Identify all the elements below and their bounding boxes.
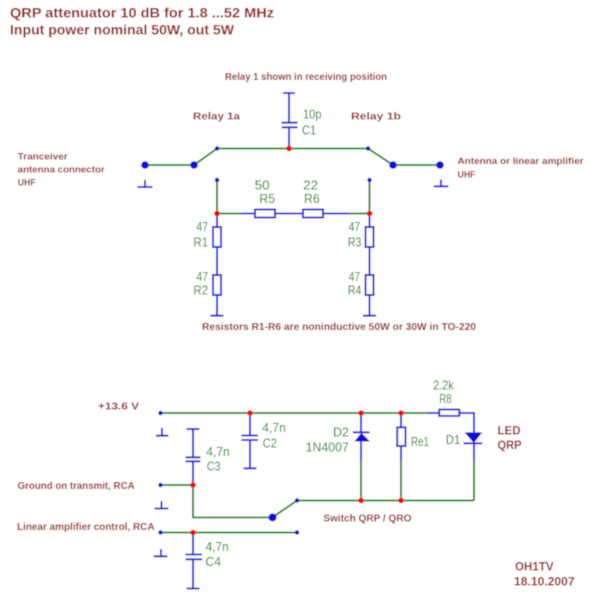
svg-text:+13.6 V: +13.6 V bbox=[98, 401, 139, 413]
svg-text:47: 47 bbox=[349, 220, 361, 234]
svg-text:R2: R2 bbox=[194, 283, 209, 297]
svg-text:C1: C1 bbox=[302, 124, 316, 138]
svg-text:UHF: UHF bbox=[18, 178, 36, 188]
svg-text:Linear amplifier control, RCA: Linear amplifier control, RCA bbox=[17, 522, 155, 533]
svg-text:R1: R1 bbox=[194, 235, 209, 249]
svg-text:1N4007: 1N4007 bbox=[306, 441, 349, 455]
svg-text:10p: 10p bbox=[303, 107, 322, 121]
svg-text:4,7n: 4,7n bbox=[206, 540, 229, 554]
svg-text:D2: D2 bbox=[333, 426, 349, 440]
svg-text:OH1TV: OH1TV bbox=[515, 560, 554, 574]
svg-text:UHF: UHF bbox=[458, 170, 476, 180]
svg-text:QRP: QRP bbox=[498, 438, 522, 452]
svg-text:4,7n: 4,7n bbox=[262, 421, 286, 435]
svg-text:C3: C3 bbox=[207, 460, 221, 474]
svg-text:R8: R8 bbox=[439, 392, 452, 406]
svg-text:47: 47 bbox=[196, 220, 208, 234]
svg-text:Relay 1a: Relay 1a bbox=[193, 111, 240, 123]
svg-text:antenna connector: antenna connector bbox=[18, 165, 106, 175]
svg-text:18.10.2007: 18.10.2007 bbox=[514, 575, 575, 589]
svg-text:Relay 1b: Relay 1b bbox=[351, 111, 401, 123]
svg-text:R5: R5 bbox=[259, 192, 275, 206]
svg-text:4,7n: 4,7n bbox=[206, 445, 230, 459]
svg-text:Switch QRP / QRO: Switch QRP / QRO bbox=[323, 514, 411, 525]
svg-text:R6: R6 bbox=[304, 192, 320, 206]
svg-text:Ground on transmit, RCA: Ground on transmit, RCA bbox=[18, 481, 135, 492]
svg-text:22: 22 bbox=[303, 179, 318, 193]
svg-text:Relay 1 shown in receiving pos: Relay 1 shown in receiving position bbox=[225, 72, 387, 83]
svg-text:Input power nominal 50W, out 5: Input power nominal 50W, out 5W bbox=[10, 22, 235, 38]
svg-text:R4: R4 bbox=[348, 283, 362, 297]
svg-text:Re1: Re1 bbox=[411, 435, 429, 449]
svg-text:C4: C4 bbox=[205, 555, 221, 569]
svg-text:Tranceiver: Tranceiver bbox=[18, 152, 69, 162]
svg-text:R3: R3 bbox=[348, 235, 362, 249]
svg-text:Antenna or linear amplifier: Antenna or linear amplifier bbox=[458, 156, 585, 166]
svg-text:50: 50 bbox=[255, 179, 270, 193]
svg-text:QRP attenuator 10 dB for 1.8 .: QRP attenuator 10 dB for 1.8 ...52 MHz bbox=[10, 5, 274, 21]
svg-text:C2: C2 bbox=[263, 437, 277, 451]
svg-text:2.2k: 2.2k bbox=[433, 379, 454, 393]
svg-text:47: 47 bbox=[196, 270, 208, 284]
svg-text:47: 47 bbox=[349, 270, 361, 284]
svg-text:D1: D1 bbox=[446, 433, 461, 447]
svg-text:Resistors R1-R6 are noninducti: Resistors R1-R6 are noninductive 50W or … bbox=[202, 322, 476, 333]
svg-text:LED: LED bbox=[498, 424, 521, 438]
